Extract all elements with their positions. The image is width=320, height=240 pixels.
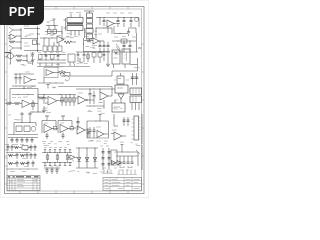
op-amp U3 <box>8 34 16 40</box>
lamp DS1 <box>120 13 139 27</box>
resistor R4 <box>64 41 76 44</box>
diode D4 <box>77 148 80 168</box>
capacitor C39b <box>26 153 29 160</box>
net labels <box>100 146 110 172</box>
bus wire <box>37 60 66 63</box>
bus wire <box>8 135 38 138</box>
node bus <box>37 26 40 52</box>
net labels <box>44 147 67 149</box>
resistor R15b <box>65 95 67 107</box>
op-amp U14 <box>100 89 112 108</box>
capacitor C44 <box>51 168 54 174</box>
resistor R41 <box>32 100 34 110</box>
resistor R46 <box>66 153 69 163</box>
bus wire <box>40 53 66 56</box>
capacitor C23 <box>89 89 92 104</box>
capacitor C40b <box>27 161 30 168</box>
diode D2 <box>118 93 124 102</box>
jumper JP4 <box>59 150 61 166</box>
capacitor C17 <box>103 52 106 61</box>
wire <box>44 167 60 170</box>
capacitor C54 <box>123 156 126 167</box>
node bus <box>16 28 22 50</box>
resistor R21 <box>8 162 16 164</box>
wire <box>53 19 56 26</box>
wire <box>40 38 57 39</box>
capacitor C9b <box>107 42 110 52</box>
net labels <box>5 150 28 172</box>
capacitor C8 <box>103 41 106 52</box>
capacitor C52 <box>129 41 132 52</box>
bus wire <box>76 51 110 54</box>
resistor R32 <box>43 46 47 52</box>
wire <box>141 114 143 144</box>
lamp DS2 <box>31 126 36 131</box>
resistor R15 <box>16 126 22 132</box>
resistor R6 <box>16 55 27 62</box>
relay K4 <box>68 54 75 66</box>
wire <box>96 17 139 25</box>
resistor R45 <box>56 153 59 163</box>
capacitor C43 <box>46 168 49 174</box>
resistor R5 <box>121 39 127 43</box>
transistor Q2 <box>8 45 17 53</box>
wire <box>47 85 113 97</box>
connector pins <box>20 112 32 123</box>
capacitor C32 <box>77 117 80 130</box>
op-amp U6 <box>57 36 71 43</box>
resistor R12 <box>12 102 22 105</box>
jumper JP1 <box>44 150 46 166</box>
bus wire <box>116 152 138 156</box>
wire <box>87 121 109 141</box>
test points <box>102 168 113 174</box>
wire <box>37 58 90 67</box>
resistor R40 <box>98 53 102 64</box>
wire <box>6 151 30 154</box>
power pin <box>99 115 102 122</box>
resistor R11 <box>5 102 12 105</box>
capacitor C2 <box>117 17 120 27</box>
resistor R35 <box>58 46 62 52</box>
diode D3 <box>68 155 77 162</box>
annotation <box>60 71 69 82</box>
wire <box>136 150 140 166</box>
net labels <box>44 165 59 167</box>
resistor R16 <box>24 126 30 132</box>
IC U21 <box>111 150 117 163</box>
bus wire <box>38 94 76 95</box>
jumper JP6 <box>69 150 71 166</box>
wire <box>96 28 97 39</box>
capacitor C15 <box>77 52 80 62</box>
IC U15 <box>112 85 128 93</box>
resistor R2 <box>9 41 16 43</box>
resistor R17 <box>14 146 22 148</box>
capacitor C20b <box>19 74 22 84</box>
resistor R34 <box>53 46 57 52</box>
capacitor C53 <box>119 156 122 167</box>
wire <box>40 63 58 67</box>
wire <box>14 122 36 134</box>
IC U23 <box>122 49 130 68</box>
net labels <box>4 144 24 146</box>
resistor R21b <box>20 154 25 156</box>
capacitor C37 <box>11 145 14 152</box>
resistor R31 <box>33 40 37 45</box>
capacitor C51 <box>123 41 126 52</box>
op-amp U9 <box>44 66 58 78</box>
capacitor C33 <box>87 128 90 138</box>
resistor R43 <box>70 126 76 130</box>
capacitor C57 <box>31 52 34 58</box>
op-amp U10 <box>24 72 36 84</box>
wire <box>130 58 138 71</box>
capacitor C29 <box>21 138 24 144</box>
op-amp U18 <box>77 126 88 134</box>
wire <box>141 145 143 170</box>
capacitor C19 <box>15 74 18 84</box>
wire <box>112 41 136 42</box>
wire <box>128 28 136 33</box>
capacitor C31 <box>31 138 34 144</box>
capacitor C55 <box>127 156 130 167</box>
capacitor C41 <box>102 148 105 170</box>
diode D10 <box>45 30 62 41</box>
IC U22 <box>112 50 120 68</box>
diode D5 <box>85 148 88 168</box>
jumper JP5 <box>64 150 66 166</box>
wire <box>12 85 36 88</box>
capacitor C36 <box>7 145 10 152</box>
capacitor C10 <box>45 54 48 61</box>
op-amp U19 <box>96 127 108 138</box>
bus wire <box>84 50 110 53</box>
net labels <box>114 152 130 170</box>
capacitor C40c <box>32 161 35 168</box>
resistor R44 <box>46 153 49 163</box>
wire <box>58 26 66 38</box>
capacitor C38b <box>34 145 37 152</box>
diode D6 <box>93 148 96 168</box>
resistor R20 <box>22 146 31 150</box>
capacitor C35 <box>127 117 130 126</box>
wire <box>10 86 38 112</box>
op-amp U13 <box>76 93 94 104</box>
op-amp U11 <box>22 97 38 108</box>
wire <box>76 148 98 168</box>
capacitor C58 <box>31 58 34 65</box>
wire <box>44 38 59 46</box>
wire <box>5 52 11 54</box>
timer U8 <box>5 51 17 65</box>
transistor Q1 <box>8 25 17 33</box>
capacitor C40 <box>16 161 19 168</box>
value labels <box>30 53 35 60</box>
wire <box>137 33 142 52</box>
bus wire <box>112 51 138 54</box>
ground <box>106 52 110 66</box>
net labels <box>88 140 108 142</box>
capacitor C50 <box>127 29 130 36</box>
net labels <box>42 141 69 143</box>
wire <box>6 168 38 171</box>
op-amp U17 <box>58 116 74 139</box>
power pin <box>121 145 124 153</box>
resistor R38 <box>51 55 55 61</box>
wire <box>38 78 64 84</box>
op-amp U20 <box>111 130 126 140</box>
resistor R37 <box>39 55 43 61</box>
wire <box>62 73 112 77</box>
diode D7 <box>112 161 117 166</box>
resistor R22 <box>20 162 28 164</box>
capacitor C39c <box>30 153 33 160</box>
diode D8 <box>117 161 122 166</box>
wire <box>30 111 44 114</box>
resistor R39 <box>92 53 96 64</box>
connector J2 <box>132 116 141 140</box>
capacitor C39 <box>16 153 19 160</box>
capacitor C39d <box>34 153 37 160</box>
wire <box>86 105 104 108</box>
jumper JP3 <box>54 150 56 166</box>
resistor R13 <box>38 95 44 100</box>
transformer T2 <box>130 88 142 110</box>
capacitor C3 <box>123 17 126 27</box>
capacitor C4 <box>130 17 133 27</box>
capacitor C47 <box>93 127 96 138</box>
op-amp U16 <box>42 116 58 139</box>
resistor R36 <box>116 44 120 52</box>
capacitor C46 <box>89 127 92 138</box>
capacitor C56 <box>131 156 134 167</box>
wire <box>114 26 128 34</box>
resistor R19 <box>8 154 16 156</box>
capacitor C27 <box>11 138 14 144</box>
wire <box>10 94 34 103</box>
test points <box>117 168 137 175</box>
bus wire <box>42 153 72 163</box>
resistor R14 <box>61 95 63 107</box>
connector J1 <box>84 11 97 39</box>
capacitor C30 <box>26 138 29 144</box>
resistor R33 <box>48 46 52 52</box>
battery BT2 <box>112 100 125 112</box>
resistor R42 <box>54 126 57 130</box>
capacitor C38 <box>30 145 33 152</box>
resistor R7 <box>84 37 93 43</box>
resistor R17b <box>73 95 75 107</box>
op-amp U7 <box>93 38 104 44</box>
wire <box>14 74 34 75</box>
ground <box>42 106 46 112</box>
jumper JP2 <box>49 150 51 166</box>
wire <box>24 26 38 29</box>
value labels <box>114 37 136 55</box>
resistor R10 <box>58 72 70 75</box>
value labels <box>114 79 129 81</box>
wire <box>83 38 89 52</box>
resistor R8 <box>87 52 89 62</box>
wire <box>96 28 112 35</box>
net labels <box>38 52 65 54</box>
value labels <box>8 21 140 174</box>
op-amp U12 <box>45 97 64 106</box>
wire <box>112 71 138 76</box>
wire <box>27 54 31 62</box>
wire <box>24 43 42 51</box>
capacitor C22 <box>43 95 46 105</box>
value labels <box>84 33 102 34</box>
capacitor C20 <box>131 73 139 85</box>
wire <box>21 38 38 40</box>
wire <box>46 26 58 30</box>
capacitor C16 <box>83 52 86 62</box>
wire <box>114 114 118 126</box>
capacitor C11 <box>57 54 60 61</box>
transformer T1 <box>64 13 84 37</box>
capacitor C34 <box>123 117 126 126</box>
capacitor C7 <box>99 41 102 52</box>
capacitor C42 <box>108 148 111 170</box>
resistor R16b <box>69 95 71 107</box>
capacitor C1 <box>103 18 106 27</box>
battery BT1 <box>117 73 124 84</box>
capacitor C28 <box>16 138 19 144</box>
op-amp U1 <box>106 13 120 27</box>
capacitor C45 <box>56 168 59 174</box>
capacitor C24 <box>93 91 96 104</box>
